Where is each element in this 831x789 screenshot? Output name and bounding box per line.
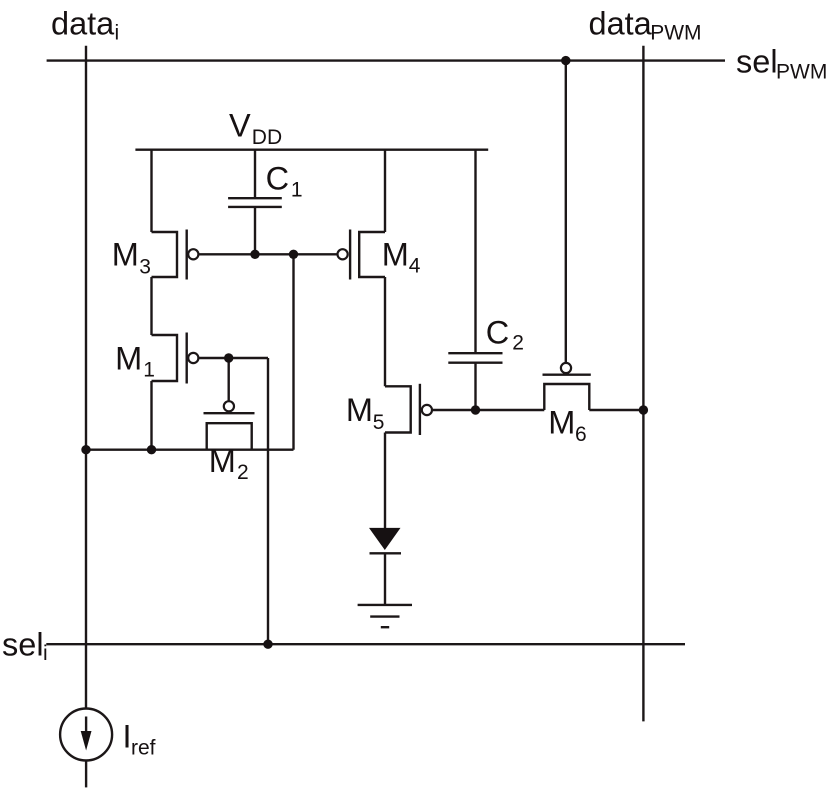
svg-text:ref: ref [131, 737, 156, 760]
svg-text:M: M [115, 341, 142, 377]
svg-text:i: i [43, 642, 48, 665]
svg-text:M: M [346, 392, 373, 428]
svg-text:6: 6 [575, 423, 587, 446]
svg-text:data: data [51, 5, 115, 41]
svg-text:sel: sel [2, 627, 44, 663]
svg-text:C: C [486, 315, 509, 351]
svg-text:5: 5 [373, 411, 385, 434]
svg-text:sel: sel [736, 44, 778, 80]
svg-text:3: 3 [139, 256, 151, 279]
svg-text:V: V [229, 108, 251, 144]
svg-text:PWM: PWM [650, 22, 701, 45]
svg-text:2: 2 [512, 332, 524, 355]
svg-text:M: M [382, 236, 409, 272]
svg-text:1: 1 [291, 179, 303, 202]
svg-text:M: M [112, 237, 139, 273]
svg-text:2: 2 [237, 461, 249, 484]
svg-text:data: data [589, 5, 653, 41]
svg-text:4: 4 [409, 254, 421, 277]
svg-text:M: M [209, 443, 236, 479]
svg-text:M: M [548, 405, 575, 441]
svg-text:i: i [115, 21, 120, 44]
svg-text:DD: DD [252, 126, 282, 149]
svg-text:PWM: PWM [776, 61, 827, 84]
svg-text:1: 1 [143, 358, 155, 381]
svg-text:C: C [266, 160, 289, 196]
